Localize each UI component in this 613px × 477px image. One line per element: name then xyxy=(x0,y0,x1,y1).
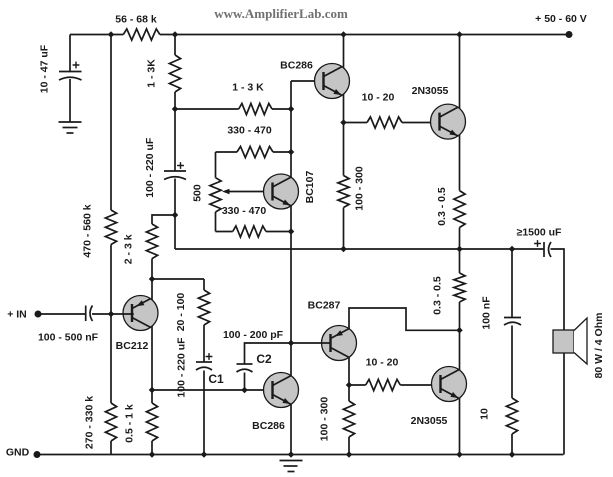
wire pot wiper xyxy=(228,191,273,193)
node ground x152 junction xyxy=(149,451,156,458)
node 1-3K bottom junction xyxy=(172,106,179,113)
capacitor 100nF xyxy=(504,317,521,319)
svg-text:1 - 3 K: 1 - 3 K xyxy=(232,82,264,94)
resistor 0.5-1k xyxy=(146,403,157,441)
node rail-175 junction xyxy=(172,31,179,38)
terminal GND xyxy=(34,451,41,458)
svg-text:www.AmplifierLab.com: www.AmplifierLab.com xyxy=(214,6,348,21)
svg-text:20 - 100: 20 - 100 xyxy=(175,293,187,332)
wire BC212 collector down xyxy=(151,326,153,403)
svg-text:2N3055: 2N3055 xyxy=(411,415,448,427)
resistor 2-3k xyxy=(146,224,157,259)
wire 100-300 to output rail xyxy=(343,208,345,250)
wire BC287 emitter staircase xyxy=(349,308,460,330)
node output rail x343 junction xyxy=(340,246,347,253)
wire 2N3055u collector xyxy=(459,35,461,109)
svg-text:100 - 220 uF: 100 - 220 uF xyxy=(144,137,156,198)
svg-text:470 - 560 k: 470 - 560 k xyxy=(82,204,94,257)
resistor 0.3-0.5 lower xyxy=(454,273,465,302)
svg-text:100 - 300: 100 - 300 xyxy=(353,166,365,211)
wire 0.3-0.5 lower top lead xyxy=(459,249,461,273)
wire y390 collector line xyxy=(152,389,273,391)
svg-text:500: 500 xyxy=(192,184,204,202)
node ground x349 junction xyxy=(346,451,353,458)
svg-text:270 - 330 k: 270 - 330 k xyxy=(84,396,96,449)
wire 20-100 to C1 xyxy=(203,325,205,362)
wire 10-47uF to ground xyxy=(69,79,71,122)
wire pot bottom lead xyxy=(215,212,217,232)
wire zobel lower xyxy=(511,434,513,455)
svg-text:≥1500 uF: ≥1500 uF xyxy=(517,227,562,239)
resistor 10-20 upper xyxy=(344,122,368,124)
svg-text:1 - 3K: 1 - 3K xyxy=(146,59,158,88)
svg-text:BC286: BC286 xyxy=(280,60,313,72)
node BC287 collector junction xyxy=(346,382,353,389)
wire input cap to base xyxy=(92,313,134,315)
wire 2N3055l emitter to ground xyxy=(459,398,461,455)
svg-text:BC212: BC212 xyxy=(116,340,149,352)
wire x459 to 2N3055l collector xyxy=(459,302,461,370)
capacitor 10-47uF lead from rail xyxy=(69,35,71,72)
node BC212 emitter junction xyxy=(149,276,156,283)
resistor 100-300 upper xyxy=(338,176,349,208)
svg-text:100 - 220 uF: 100 - 220 uF xyxy=(176,337,188,398)
node x459-330 junction xyxy=(456,327,463,334)
node x291-231 junction xyxy=(288,228,295,235)
wire BC287 base lead xyxy=(291,342,332,344)
wire C2 top lead xyxy=(245,343,292,364)
transistor Q7 2N3055 lower xyxy=(432,367,467,402)
node feedback junction xyxy=(172,212,179,219)
wire speaker to ground rail xyxy=(563,353,565,455)
wire x175 line from rail xyxy=(174,35,176,56)
resistor 20-100 xyxy=(198,290,209,325)
wire 1500uF to speaker corner xyxy=(551,249,565,330)
wire output rail xyxy=(175,248,512,250)
transistor Q1 BC212 xyxy=(123,296,158,331)
terminal +50-60V xyxy=(566,31,573,38)
capacitor 100-220uF upper xyxy=(164,170,186,172)
svg-text:GND: GND xyxy=(6,447,30,459)
svg-text:100 nF: 100 nF xyxy=(481,296,493,330)
wire zobel middle xyxy=(511,326,513,399)
svg-text:2N3055: 2N3055 xyxy=(412,85,449,97)
resistor 270-330k xyxy=(105,403,116,441)
capacitor C1 100-220uF xyxy=(196,361,212,363)
svg-text:2 - 3 k: 2 - 3 k xyxy=(123,234,135,264)
resistor 330-470 upper xyxy=(216,151,238,153)
wire 20-100 top lead xyxy=(203,279,205,290)
wire to 1500uF xyxy=(512,248,544,250)
wire input lead xyxy=(38,313,86,315)
wire zobel upper xyxy=(511,249,513,318)
wire 2-3k jog xyxy=(152,215,175,224)
svg-text:100 - 500 nF: 100 - 500 nF xyxy=(38,332,99,344)
capacitor 1500uF output xyxy=(543,242,545,257)
wire bias line x111 upper xyxy=(110,35,112,211)
node BC212 collector junction xyxy=(149,387,156,394)
capacitor 10-47uF xyxy=(59,71,82,73)
wire top +V rail left segment xyxy=(70,34,123,36)
ground symbol left xyxy=(59,121,82,123)
node ground x512 junction xyxy=(509,451,516,458)
svg-text:100 - 200 pF: 100 - 200 pF xyxy=(223,329,284,341)
resistor 0.3-0.5 upper xyxy=(454,191,465,228)
capacitor 100-500nF input xyxy=(85,306,87,322)
capacitor C2 100-200pF xyxy=(237,363,253,365)
svg-text:+ IN: + IN xyxy=(7,309,27,321)
wire top +V rail right segment xyxy=(160,34,569,36)
wire bias line x111 middle xyxy=(110,245,112,404)
node x343 junction xyxy=(340,119,347,126)
wire BC286-lower emitter to ground xyxy=(290,405,292,455)
svg-text:0.3 - 0.5: 0.3 - 0.5 xyxy=(432,276,444,315)
transistor Q5 BC287 xyxy=(322,326,357,361)
node ground x459 junction xyxy=(456,451,463,458)
resistor 470-560k xyxy=(105,210,116,245)
node BC287 base node xyxy=(288,340,295,347)
node rail-BC286 junction xyxy=(340,31,347,38)
wire BC286 collector xyxy=(343,35,345,68)
resistor 1-3K vertical xyxy=(169,55,180,92)
svg-text:BC287: BC287 xyxy=(308,300,341,312)
node output-zobel junction xyxy=(509,246,516,253)
node C2-390 junction xyxy=(241,387,248,394)
wire 100-300l to ground xyxy=(348,437,350,455)
wire 2N3055u emitter xyxy=(459,135,461,191)
potentiometer 500 xyxy=(210,178,221,212)
wire x291 long xyxy=(290,206,292,376)
resistor 330-470 lower xyxy=(216,231,233,233)
svg-text:0.5 - 1 k: 0.5 - 1 k xyxy=(124,404,136,443)
resistor 1-3K horizontal xyxy=(175,108,239,110)
resistor 100-300 lower xyxy=(343,401,354,437)
wire ground rail xyxy=(37,454,564,456)
wire x291 upper xyxy=(290,81,292,177)
wire C2 bottom lead xyxy=(244,373,246,391)
wire 0.3-0.5 to output rail xyxy=(459,228,461,250)
transistor Q2 BC107 xyxy=(264,174,299,209)
speaker 80W/4Ohm xyxy=(553,330,574,353)
svg-text:BC286: BC286 xyxy=(252,420,285,432)
wire BC286 base lead xyxy=(291,80,325,82)
wire C1 to ground xyxy=(203,371,205,455)
svg-text:+ 50 - 60 V: + 50 - 60 V xyxy=(535,13,587,25)
node ground x204 junction xyxy=(201,451,208,458)
node x291 ground junction xyxy=(288,451,295,458)
node 1-3K right junction xyxy=(288,106,295,113)
svg-text:0.3 - 0.5: 0.3 - 0.5 xyxy=(436,187,448,226)
node input-bias junction xyxy=(108,311,115,318)
node rail-2N3055 junction xyxy=(456,31,463,38)
resistor 10 zobel xyxy=(506,398,517,434)
wire 0.5-1k to ground xyxy=(151,441,153,455)
resistor 56-68k xyxy=(123,29,160,40)
wire BC287 collector xyxy=(348,357,350,401)
transistor Q4 2N3055 upper xyxy=(431,104,466,139)
wire pot top lead xyxy=(215,152,217,178)
svg-text:330 - 470: 330 - 470 xyxy=(227,125,272,137)
svg-text:100 - 300: 100 - 300 xyxy=(319,397,331,442)
wire bias line x111 lower xyxy=(110,441,112,455)
terminal input +IN xyxy=(35,311,42,318)
wire x175 middle xyxy=(174,92,176,171)
node x291-152 junction xyxy=(288,149,295,156)
svg-text:10: 10 xyxy=(479,408,491,420)
svg-text:C1: C1 xyxy=(208,372,224,386)
resistor 10-20 lower xyxy=(349,384,366,386)
wire BC286 emitter down xyxy=(343,94,345,175)
svg-text:10 - 20: 10 - 20 xyxy=(362,92,395,104)
svg-text:10 - 47 uF: 10 - 47 uF xyxy=(39,44,51,93)
wire feedback horizontal xyxy=(152,278,204,280)
ground symbol center xyxy=(280,460,303,462)
wire BC212 emitter up xyxy=(151,259,153,300)
svg-text:80 W / 4 Ohm: 80 W / 4 Ohm xyxy=(593,313,605,379)
node rail-bias junction xyxy=(108,31,115,38)
svg-text:BC107: BC107 xyxy=(304,170,316,203)
node output rail x459 junction xyxy=(456,246,463,253)
transistor Q6 BC286 lower xyxy=(264,373,299,408)
svg-text:C2: C2 xyxy=(256,352,272,366)
svg-text:330 - 470: 330 - 470 xyxy=(222,205,267,217)
wire x175 lower xyxy=(174,179,176,250)
svg-text:10 - 20: 10 - 20 xyxy=(366,357,399,369)
svg-text:56 - 68 k: 56 - 68 k xyxy=(115,14,157,26)
transistor Q3 BC286 upper xyxy=(315,64,350,99)
